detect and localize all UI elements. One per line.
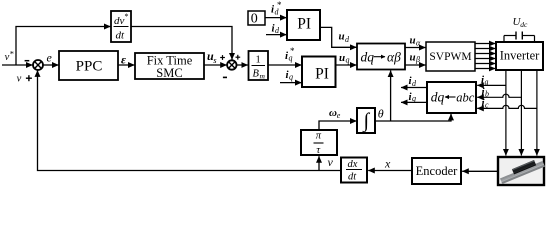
node i_q feedback label	[409, 91, 417, 103]
DC link symbol	[504, 32, 535, 43]
summing junction S1	[33, 60, 43, 70]
svg-text:c: c	[485, 101, 489, 110]
svg-text:dv: dv	[114, 15, 125, 27]
node u_s label	[207, 49, 217, 65]
wire u_s SMC to S2	[204, 64, 227, 66]
wire i_c tap to dq-abc with crossovers	[477, 105, 537, 108]
block derivative dv*/dt	[111, 11, 131, 42]
svg-text:q: q	[289, 72, 293, 81]
wire S2 to 1/Bm	[237, 64, 248, 66]
svg-text:abc: abc	[456, 91, 475, 105]
wire phase C down to motor	[536, 70, 538, 156]
block 1/Bm	[249, 51, 269, 81]
wire i_a tap to dq-abc	[477, 84, 506, 86]
svg-text:θ: θ	[378, 106, 384, 120]
wire theta branch up to dq-ab	[390, 71, 392, 122]
node u_beta label	[410, 52, 421, 65]
svg-text:v: v	[328, 155, 334, 169]
wire phase B down to motor	[520, 70, 522, 156]
node i_c label	[482, 97, 490, 110]
svg-text:ε: ε	[121, 53, 126, 67]
svg-text:*: *	[10, 49, 14, 59]
block Encoder	[412, 158, 461, 184]
svg-text:0: 0	[251, 12, 258, 27]
svg-text:dq: dq	[431, 90, 445, 105]
svg-text:*: *	[277, 0, 282, 10]
wire u_alpha to SVPWM	[405, 47, 426, 49]
svg-text:dt: dt	[116, 30, 126, 42]
wire omega_e into integrator	[319, 121, 357, 130]
wire e from S1 to PPC	[44, 64, 59, 66]
sign plus left S2	[220, 55, 225, 60]
motor photo block	[498, 157, 545, 185]
node i_a label	[481, 74, 489, 87]
block PI1	[287, 10, 320, 40]
block Fix Time SMC	[135, 53, 204, 80]
wire u_q PI2 to dq-ab	[336, 64, 357, 66]
svg-text:PPC: PPC	[76, 59, 103, 75]
block pi over tau	[301, 130, 337, 156]
node v* label	[5, 49, 14, 64]
svg-text:e: e	[47, 51, 53, 65]
node i_d label	[272, 22, 281, 35]
sign v + at S1	[17, 73, 32, 84]
node i_q* label	[285, 46, 295, 62]
wire i_q* 1/Bm to PI2	[268, 64, 302, 66]
wire v* input	[2, 64, 33, 66]
node x label	[384, 157, 391, 171]
summing junction S2	[227, 60, 236, 69]
block dx/dt	[341, 158, 367, 183]
node u_alpha label	[410, 35, 422, 48]
svg-text:β: β	[415, 55, 420, 64]
wire theta from integrator to dq-abc with branch to dq-ab	[375, 114, 451, 121]
gate pulse arrows SVPWM to Inverter	[475, 44, 495, 69]
wire x Encoder to dx/dt	[368, 170, 412, 172]
block PI2	[302, 57, 336, 88]
block dq from abc	[427, 82, 476, 113]
sign minus bottom S2	[223, 76, 227, 78]
svg-text:x: x	[384, 157, 391, 171]
wire v up into pi over tau	[318, 156, 320, 170]
svg-text:SMC: SMC	[156, 66, 182, 80]
wire i_b tap to dq-abc with crossover	[477, 94, 521, 97]
svg-text:u: u	[410, 35, 416, 47]
wire i_d output arrow	[401, 87, 427, 89]
wire feedback v to S1	[38, 70, 342, 170]
block integrator	[357, 108, 375, 133]
svg-text:αβ: αβ	[387, 49, 401, 64]
svg-text:u: u	[339, 31, 345, 43]
svg-text:dt: dt	[348, 172, 357, 183]
wire i_d into PI1	[266, 34, 287, 36]
block 0 reference	[248, 11, 265, 27]
block Inverter	[496, 42, 543, 70]
node u_d label	[339, 31, 351, 44]
svg-text:m: m	[260, 72, 266, 81]
svg-text:ω: ω	[329, 107, 337, 119]
wire i_d* 0 to PI1	[265, 17, 287, 19]
block PPC	[59, 51, 118, 80]
sign plus top S2	[236, 55, 241, 60]
svg-text:a: a	[485, 77, 489, 86]
wire i_q output arrow	[401, 101, 427, 103]
node U_dc label	[513, 16, 529, 29]
wire i_q into PI2	[280, 82, 302, 84]
svg-text:Encoder: Encoder	[416, 164, 458, 178]
node i_d* label	[271, 0, 282, 16]
node i_d feedback label	[409, 75, 418, 88]
svg-text:PI: PI	[297, 15, 311, 32]
wire motor to Encoder	[462, 170, 498, 172]
svg-text:B: B	[253, 69, 260, 80]
svg-text:SVPWM: SVPWM	[429, 51, 471, 63]
wire u_d PI1 to dq-ab	[320, 27, 357, 47]
node v label	[328, 155, 334, 169]
svg-text:dx: dx	[348, 159, 358, 170]
svg-text:u: u	[339, 52, 345, 64]
svg-text:u: u	[410, 52, 416, 64]
block dq to alpha-beta	[357, 44, 405, 70]
wire u_beta to SVPWM	[405, 64, 426, 66]
wire branch up to derivative	[16, 27, 111, 66]
svg-text:*: *	[290, 46, 295, 56]
wire epsilon PPC to SMC	[118, 64, 135, 66]
node i_b label	[482, 86, 490, 99]
svg-text:q: q	[346, 56, 350, 65]
sign minus at S1	[25, 60, 30, 62]
svg-text:Inverter: Inverter	[500, 49, 540, 63]
node i_q label	[286, 69, 294, 81]
svg-text:v: v	[17, 73, 22, 84]
block SVPWM	[426, 42, 475, 71]
svg-text:π: π	[316, 131, 322, 142]
node theta label	[378, 106, 384, 120]
svg-text:q: q	[412, 94, 416, 103]
svg-text:dc: dc	[520, 20, 528, 29]
svg-text:*: *	[125, 12, 129, 21]
svg-text:1: 1	[256, 55, 261, 66]
svg-text:PI: PI	[315, 65, 329, 82]
wire derivative to S2 top	[131, 27, 232, 60]
wire phase A down to motor	[505, 70, 507, 156]
node u_q label	[339, 52, 350, 65]
node e label	[47, 51, 53, 65]
node omega_e label	[329, 107, 341, 120]
svg-text:b: b	[485, 89, 489, 98]
node epsilon label	[121, 53, 126, 67]
svg-text:e: e	[337, 111, 341, 120]
svg-text:dq: dq	[361, 49, 375, 64]
